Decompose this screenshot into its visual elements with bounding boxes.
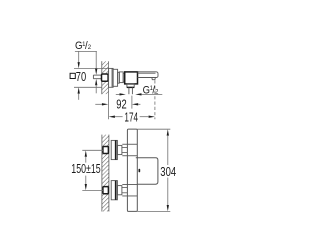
svg-text:304: 304 — [160, 166, 176, 180]
svg-text:70: 70 — [76, 71, 86, 85]
svg-text:174: 174 — [124, 111, 138, 125]
svg-text:2: 2 — [155, 88, 159, 96]
svg-text:150±15: 150±15 — [71, 162, 100, 176]
svg-text:2: 2 — [88, 44, 92, 51]
